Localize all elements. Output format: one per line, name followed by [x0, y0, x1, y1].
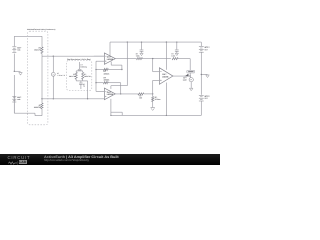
svg-text:SP?spkr: SP?spkr	[183, 76, 187, 81]
svg-text:OA?LM386: OA?LM386	[162, 73, 169, 78]
svg-text:R?1M/4.7M: R?1M/4.7M	[84, 73, 91, 78]
svg-text:BT1?9 V: BT1?9 V	[205, 46, 211, 51]
svg-text:R?100/4k: R?100/4k	[104, 77, 111, 82]
svg-text:R?100k: R?100k	[136, 53, 140, 58]
svg-text:MK?mic: MK?mic	[17, 46, 22, 51]
svg-text:V?-1 V to 1 V: V?-1 V to 1 V	[57, 72, 66, 77]
svg-text:R?100/470k: R?100/470k	[34, 104, 42, 109]
svg-text:R?10k/4.7k: R?10k/4.7k	[34, 46, 41, 51]
svg-text:BT2?9 V: BT2?9 V	[205, 95, 211, 100]
svg-text:R?100/1k: R?100/1k	[104, 70, 111, 75]
svg-text:R?100k: R?100k	[171, 53, 175, 58]
svg-text:R?8 Ohm: R?8 Ohm	[155, 96, 161, 101]
svg-text:OA?LM358: OA?LM358	[107, 56, 114, 61]
svg-text:Bad Simulation / Old In Real: Bad Simulation / Old In Real	[67, 58, 91, 61]
svg-text:R?100: R?100	[139, 95, 142, 100]
svg-text:R?1M/4.7M: R?1M/4.7M	[69, 73, 76, 78]
svg-text:OA?LM358: OA?LM358	[107, 91, 114, 96]
svg-text:Shielded/Twisted Cable (Conduc: Shielded/Twisted Cable (Conductors)	[27, 28, 56, 31]
svg-text:C?1u: C?1u	[83, 83, 85, 88]
svg-text:MK?mic: MK?mic	[17, 96, 22, 101]
svg-text:C?100n/1u: C?100n/1u	[80, 63, 87, 68]
